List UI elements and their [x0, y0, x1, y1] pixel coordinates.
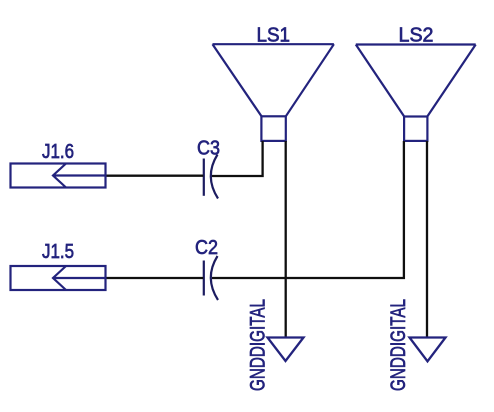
- connector pin J1.6: [11, 164, 106, 188]
- capacitor C3: [204, 155, 218, 199]
- wire: J1.5 to C2: [106, 277, 204, 279]
- svg-text:C2: C2: [195, 237, 218, 259]
- wire: LS2 pin 1 down and left to C2: [212, 141, 404, 278]
- svg-text:GNDDIGITAL: GNDDIGITAL: [387, 299, 410, 391]
- wire: LS1 pin 2 down to ground: [285, 141, 287, 337]
- ground symbol GNDDIGITAL (under LS1): [268, 338, 304, 362]
- svg-text:J1.6: J1.6: [42, 141, 74, 163]
- ground symbol GNDDIGITAL (under LS2): [410, 338, 446, 362]
- connector pin J1.5: [11, 266, 106, 290]
- svg-text:GNDDIGITAL: GNDDIGITAL: [247, 299, 270, 391]
- svg-text:LS2: LS2: [399, 25, 434, 47]
- svg-text:LS1: LS1: [257, 25, 291, 47]
- svg-text:C3: C3: [197, 138, 220, 160]
- svg-text:J1.5: J1.5: [42, 241, 74, 263]
- speaker LS1: [213, 44, 334, 141]
- wire: LS2 pin 2 down to ground: [426, 141, 428, 337]
- wire: LS1 pin 1 down and left to C3: [212, 141, 263, 176]
- speaker LS2: [356, 45, 476, 141]
- wire: J1.6 to C3: [106, 175, 204, 177]
- capacitor C2: [204, 256, 218, 300]
